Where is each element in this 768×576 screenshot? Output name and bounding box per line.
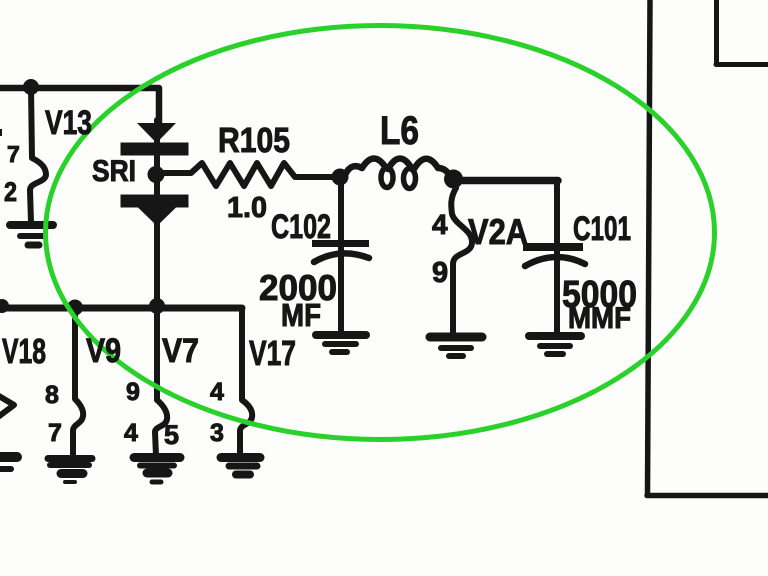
svg-text:V17: V17 <box>249 334 296 373</box>
svg-text:C101: C101 <box>573 210 631 248</box>
svg-text:9: 9 <box>126 378 140 406</box>
svg-text:V2A: V2A <box>468 211 528 252</box>
svg-text:C102: C102 <box>271 208 331 246</box>
svg-text:7: 7 <box>48 419 62 447</box>
svg-text:V13: V13 <box>45 104 92 142</box>
svg-text:V7: V7 <box>162 332 199 370</box>
svg-text:L6: L6 <box>380 109 419 153</box>
svg-text:4: 4 <box>124 419 138 447</box>
svg-text:1.0: 1.0 <box>227 192 267 224</box>
svg-text:V18: V18 <box>2 332 46 371</box>
svg-text:MMF: MMF <box>568 302 631 335</box>
svg-text:2: 2 <box>4 177 17 207</box>
svg-text:5: 5 <box>164 420 179 450</box>
svg-text:V9: V9 <box>86 332 121 370</box>
svg-text:4: 4 <box>210 378 224 406</box>
svg-text:MF: MF <box>281 297 321 333</box>
svg-text:3: 3 <box>210 419 224 447</box>
svg-text:R105: R105 <box>218 121 290 160</box>
svg-text:8: 8 <box>45 381 59 409</box>
svg-text:9: 9 <box>432 257 448 289</box>
svg-text:7: 7 <box>7 141 20 167</box>
svg-text:SRI: SRI <box>92 155 136 188</box>
svg-text:4: 4 <box>432 209 448 240</box>
